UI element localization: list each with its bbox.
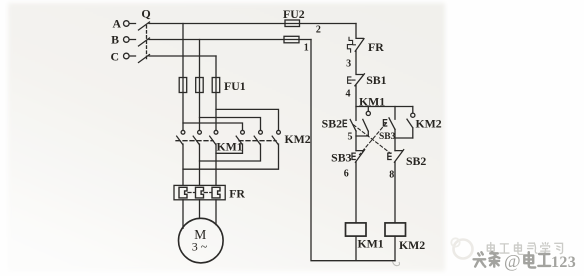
svg-text:SB2: SB2 xyxy=(406,154,426,168)
svg-text:5: 5 xyxy=(348,132,353,143)
svg-text:KM1: KM1 xyxy=(217,140,243,154)
svg-text:FR: FR xyxy=(368,40,384,54)
svg-text:SB2: SB2 xyxy=(322,116,342,130)
svg-text:B: B xyxy=(111,33,119,47)
svg-text:2: 2 xyxy=(316,25,321,36)
svg-text:3 ~: 3 ~ xyxy=(192,240,208,254)
svg-text:KM2: KM2 xyxy=(285,132,311,146)
svg-text:KM2: KM2 xyxy=(416,117,442,131)
svg-text:6: 6 xyxy=(344,169,349,180)
svg-text:A: A xyxy=(112,17,121,31)
svg-text:KM2: KM2 xyxy=(399,238,425,252)
svg-text:4: 4 xyxy=(346,89,351,100)
svg-text:FR: FR xyxy=(229,187,245,201)
svg-text:123: 123 xyxy=(551,254,576,271)
svg-text:FU1: FU1 xyxy=(224,79,246,93)
svg-text:8: 8 xyxy=(389,170,394,181)
svg-text:FU2: FU2 xyxy=(283,7,305,21)
svg-text:1: 1 xyxy=(304,42,309,53)
svg-text:SB3: SB3 xyxy=(379,132,396,142)
svg-text:SB1: SB1 xyxy=(366,73,386,87)
svg-text:@: @ xyxy=(504,251,521,271)
svg-text:Q: Q xyxy=(141,7,150,21)
svg-text:C: C xyxy=(110,50,119,64)
svg-text:3: 3 xyxy=(346,58,351,69)
svg-text:KM1: KM1 xyxy=(359,95,385,109)
svg-text:SB3: SB3 xyxy=(331,151,351,165)
svg-text:KM1: KM1 xyxy=(358,236,384,250)
